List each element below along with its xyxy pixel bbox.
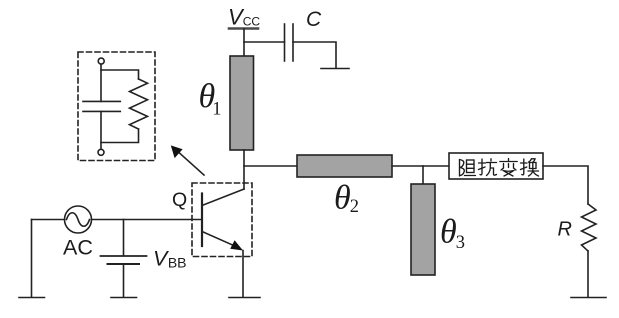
- wire Vcc to theta1: [243, 29, 245, 56]
- transistor Q emitter arrowhead: [230, 240, 243, 250]
- transmission line theta3: [411, 184, 435, 275]
- svg-text:R: R: [558, 219, 572, 241]
- wire emitter to ground: [242, 251, 244, 298]
- battery Vbb top plate: [101, 255, 147, 257]
- label impedance transform (hand-drawn CJK): [460, 159, 539, 177]
- wire Vcc node to capacitor C: [244, 41, 285, 43]
- wire R to ground: [587, 251, 589, 297]
- capacitor C: [285, 24, 294, 61]
- svg-text:Q: Q: [172, 189, 187, 211]
- transistor Q dashed box: [192, 183, 252, 257]
- wire resistor bottom branch: [101, 129, 139, 143]
- ground (below Q): [229, 297, 260, 299]
- wire top branch to resistor: [101, 70, 139, 79]
- wire box to resistor R: [543, 166, 588, 204]
- impedance transform box: [449, 153, 543, 179]
- equivalent capacitor: [83, 101, 120, 111]
- wire C to ground: [293, 42, 336, 68]
- wire top terminal to cap: [100, 64, 102, 101]
- equivalent circuit dashed box: [78, 52, 155, 161]
- wire battery to ground: [123, 265, 125, 297]
- arrowhead: [171, 145, 183, 158]
- wire node to theta2: [244, 165, 297, 167]
- ground (far left): [19, 297, 45, 299]
- transistor Q base bar: [201, 194, 203, 247]
- transmission line theta2: [297, 155, 392, 177]
- char zu: [460, 160, 476, 177]
- equivalent resistor zigzag: [130, 79, 148, 129]
- wire base line left segment: [32, 219, 65, 221]
- ground (below R): [571, 297, 606, 299]
- char huan: [521, 159, 539, 176]
- wire theta2 to impedance box: [392, 165, 449, 167]
- AC source sine: [67, 213, 90, 227]
- AC source circle: [65, 206, 92, 233]
- Vcc rail bar: [229, 27, 258, 30]
- svg-text:AC: AC: [63, 236, 93, 260]
- resistor R: [582, 204, 597, 251]
- wire theta1 to collector node: [243, 150, 245, 189]
- transmission line theta1: [230, 56, 254, 150]
- wire base line right segment: [92, 219, 203, 221]
- wire node to battery Vbb: [123, 220, 125, 256]
- wire left down to ground: [31, 220, 33, 298]
- ground (below Vbb): [111, 297, 137, 299]
- char kang: [479, 159, 497, 176]
- char bian: [500, 159, 517, 177]
- svg-text:C: C: [306, 8, 322, 31]
- terminal bottom: [98, 149, 104, 155]
- ground (right of C): [321, 68, 349, 70]
- terminal top: [98, 58, 104, 64]
- wire stub junction to theta3: [422, 166, 424, 184]
- battery Vbb bottom plate: [108, 263, 140, 265]
- arrow transistor to equivalent circuit: [175, 149, 204, 175]
- wire cap to bottom terminal: [100, 111, 102, 149]
- transistor Q collector: [202, 189, 244, 206]
- transistor Q emitter: [202, 232, 237, 248]
